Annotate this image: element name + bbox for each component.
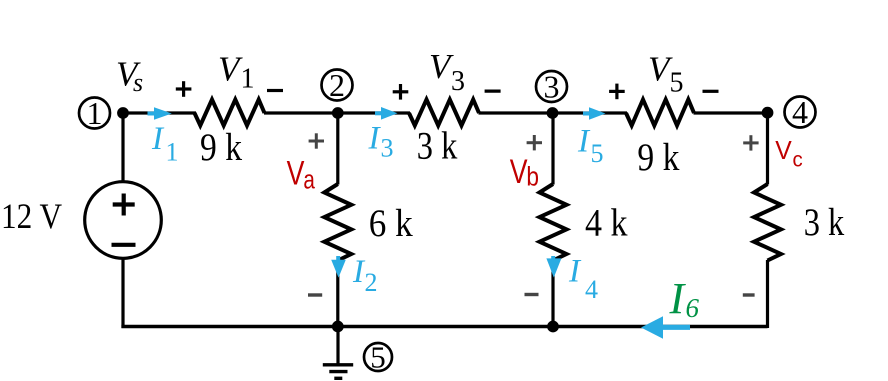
minus sign below 4k [525,293,539,296]
current arrow I2 [331,256,346,278]
svg-text:s: s [133,68,143,97]
current arrow I6 [641,316,690,338]
svg-text:2: 2 [365,268,378,297]
svg-text:3: 3 [451,66,465,97]
svg-text:I: I [577,124,591,160]
current arrow I5 [583,107,606,120]
minus sign below 6k [308,293,322,296]
junction dot node2 [332,107,344,119]
svg-text:I: I [669,274,687,323]
wire R1 to node2 [264,111,338,114]
node label 4 [785,94,816,130]
resistor V1 9k body [195,100,265,126]
label V3 [429,47,465,97]
resistor V3 3k body [409,100,479,126]
svg-text:2: 2 [329,67,345,103]
label Va red [287,155,316,195]
plus sign V1 [176,81,192,97]
label Vs [116,55,143,98]
plus sign Va [309,133,324,148]
label Vb red [510,153,539,192]
current arrow I1 [148,107,172,120]
svg-text:5: 5 [670,68,684,99]
wire 3k to bottom-right corner [766,260,769,328]
current arrow I3 [375,107,398,120]
svg-text:3 k: 3 k [804,201,845,244]
junction dot node4 [762,107,774,119]
ground node5 [323,327,353,379]
wire R5 to node4 [694,111,768,114]
node label 3 [536,69,567,105]
svg-text:4: 4 [585,275,598,304]
plus sign Vb [527,135,542,150]
junction dot node3-bottom [547,321,559,333]
wire node2 down to 6k [336,113,339,185]
wire node1 down to source [121,113,124,183]
svg-text:b: b [526,162,539,192]
junction dot node3 [547,107,559,119]
junction dot node1 [117,107,129,119]
svg-text:I: I [151,121,165,157]
label I3 [368,121,394,163]
junction dot node2-bottom [332,321,344,333]
wire 6k to bottom [336,260,339,327]
current arrow I4 [546,256,561,278]
svg-text:V: V [218,50,243,89]
svg-text:1: 1 [241,64,255,95]
svg-text:3 k: 3 k [417,125,458,168]
label I2 [352,254,378,297]
resistor 4k body [540,184,567,261]
wire source to bottom-left corner [121,258,124,328]
resistor V5 9k body [626,100,694,126]
node label 2 [322,67,353,103]
bottom wire [121,325,767,329]
svg-text:4 k: 4 k [585,202,628,245]
resistor 6k body [324,184,351,261]
svg-text:12 V: 12 V [1,196,62,236]
svg-text:a: a [303,165,315,195]
node label 1 [79,95,110,131]
wire node3 to R5 [553,111,627,114]
plus sign V3 [393,84,409,100]
svg-text:3: 3 [381,134,394,163]
svg-text:V: V [510,153,528,191]
svg-text:I: I [368,121,382,157]
label I4 [568,254,598,305]
svg-text:V: V [287,155,305,193]
voltage source 12V [85,182,162,259]
wire 4k to bottom [551,260,554,327]
wire node2 to R3 [338,111,410,114]
minus sign V5 [703,90,719,93]
minus sign below 3k right [743,293,755,296]
svg-text:4: 4 [792,94,808,130]
label I5 [577,124,604,169]
svg-text:V: V [775,135,792,165]
svg-text:c: c [793,149,803,172]
svg-text:5: 5 [370,340,386,375]
label I6 green [669,274,700,323]
svg-text:6 k: 6 k [369,202,413,245]
svg-text:1: 1 [166,138,179,167]
svg-text:I: I [568,254,582,290]
wire node1 to R1 [123,111,196,114]
wire node4 down to 3k [766,113,769,185]
svg-text:5: 5 [591,139,604,168]
label Vc red [775,135,803,172]
plus sign Vc [743,135,758,150]
minus sign V3 [485,89,501,92]
wire node3 down to 4k [551,113,554,185]
svg-text:9 k: 9 k [637,136,679,179]
svg-text:9 k: 9 k [200,126,242,169]
plus sign V5 [609,84,625,100]
minus sign V1 [267,89,283,92]
node label 5 [364,340,392,375]
svg-text:3: 3 [544,69,560,105]
svg-text:6: 6 [686,293,700,323]
label I1 [151,121,179,167]
svg-text:1: 1 [87,95,103,131]
label V5 [648,50,684,99]
label V1 [218,50,255,95]
resistor 3k body [754,184,781,261]
wire R3 to node3 [479,111,554,114]
